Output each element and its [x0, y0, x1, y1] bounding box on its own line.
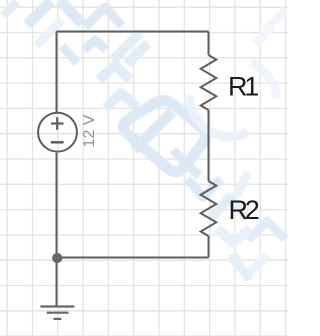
ground	[40, 305, 74, 307]
resistor R2	[201, 181, 217, 236]
svg-text:12 V: 12 V	[81, 114, 98, 147]
wire bottom	[57, 257, 209, 259]
resistor R1	[201, 55, 217, 110]
watermark (diagonal light-blue logo bands)	[3, 0, 285, 280]
minus sign	[51, 141, 64, 144]
wire right upper stub	[208, 32, 210, 56]
svg-text:R1: R1	[228, 71, 258, 101]
faint arc of letter bowl	[189, 95, 248, 137]
wire top	[57, 31, 209, 33]
wire left upper	[56, 32, 58, 113]
wire left lower	[56, 153, 58, 306]
plus sign	[51, 117, 64, 129]
wire right lower stub	[208, 236, 210, 258]
voltage source V1 circle	[38, 113, 77, 152]
node junction dot	[52, 253, 62, 263]
svg-text:R2: R2	[229, 195, 259, 225]
wire right middle	[208, 110, 210, 181]
